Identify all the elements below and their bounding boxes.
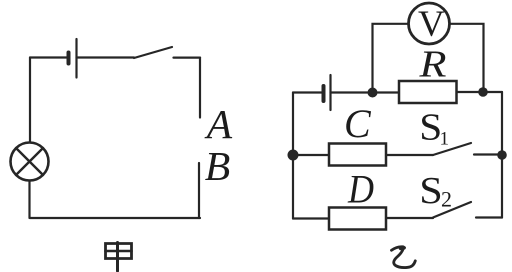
svg-text:C: C bbox=[344, 101, 372, 146]
wire: C box to switch S1 pivot bbox=[386, 154, 433, 156]
svg-text:S: S bbox=[419, 170, 443, 212]
resistor C box bbox=[329, 144, 386, 166]
svg-text:V: V bbox=[418, 4, 445, 45]
svg-text:R: R bbox=[418, 44, 446, 86]
battery B2 negative plate (short thick) bbox=[322, 86, 326, 101]
wire: circuit2 left rail bbox=[292, 93, 294, 219]
switch S1 blade (open) bbox=[433, 143, 471, 155]
label 乙 (drawn strokes) bbox=[392, 247, 416, 268]
wire: battery to switch pivot bbox=[77, 56, 135, 58]
wire: circuit1 top-left from corner to battery bbox=[30, 56, 67, 58]
svg-text:A: A bbox=[204, 101, 233, 147]
wire: right side lower segment from terminal B down bbox=[198, 163, 200, 218]
junction node right of R bbox=[478, 87, 488, 97]
junction node left of R bbox=[368, 88, 378, 98]
svg-text:2: 2 bbox=[441, 187, 452, 212]
battery B1 negative plate (short thick) bbox=[67, 53, 71, 64]
junction node right rail / S1 branch bbox=[497, 150, 507, 160]
wire: D box to switch S2 pivot bbox=[386, 217, 433, 219]
switch S blade (open) bbox=[134, 47, 172, 58]
wire: circuit2 top-left to battery bbox=[293, 91, 322, 93]
battery B1 positive plate (long thin) bbox=[75, 39, 77, 78]
wire: voltmeter left drop bbox=[373, 24, 409, 93]
voltmeter V1 circle bbox=[409, 3, 450, 44]
resistor D box bbox=[329, 208, 386, 230]
wire: R box to right corner bbox=[457, 91, 503, 93]
switch S2 blade (open) bbox=[433, 202, 471, 218]
wire: voltmeter right drop bbox=[450, 24, 484, 92]
wire: S2 right terminal to bottom-right corner bbox=[476, 216, 502, 218]
svg-text:D: D bbox=[347, 167, 374, 212]
lamp L1 cross bbox=[16, 148, 43, 175]
wire: circuit2 bottom-left to D box bbox=[293, 217, 329, 219]
wire: left node to C box bbox=[293, 154, 329, 156]
wire: circuit1 bottom bbox=[30, 217, 200, 219]
wire: circuit2 right rail bbox=[501, 92, 503, 218]
wire: circuit1 left upper bbox=[29, 58, 31, 143]
label 甲 (drawn strokes) bbox=[106, 243, 132, 272]
resistor R box bbox=[399, 81, 457, 103]
svg-text:1: 1 bbox=[440, 128, 450, 149]
wire: switch right terminal to top-right corner bbox=[174, 56, 201, 58]
lamp L1 circle bbox=[11, 143, 49, 181]
wire: circuit1 left lower bbox=[28, 181, 30, 219]
junction node left rail / C branch bbox=[288, 150, 299, 161]
wire: right side upper segment down to terminal A bbox=[199, 58, 201, 118]
battery B2 positive plate (long thin) bbox=[329, 75, 331, 110]
wire: battery to R box bbox=[331, 91, 400, 93]
svg-text:B: B bbox=[205, 143, 231, 189]
wire: S1 right terminal to right rail bbox=[474, 153, 502, 155]
